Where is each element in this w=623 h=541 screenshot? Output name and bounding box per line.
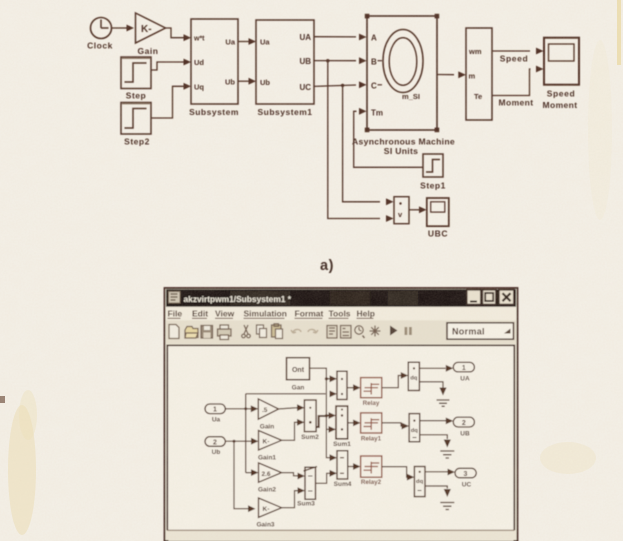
vertical tap from wire1 up to carrier row and down to Gain2 bbox=[246, 394, 259, 476]
step source Step bbox=[121, 57, 151, 101]
toolbar icon redo faded bbox=[308, 329, 318, 333]
toolbar icon paste bbox=[272, 324, 283, 339]
wire Step to Subsystem Ud bbox=[151, 59, 191, 70]
wire UB tap down to mux input 2 bbox=[328, 61, 394, 222]
wire inport1 to Gain with tap bbox=[225, 405, 258, 412]
wire Relay2 to dq block C bbox=[382, 467, 415, 481]
wire dq B to outport 2 bbox=[420, 418, 454, 425]
wire UB to machine B with tap bbox=[314, 57, 367, 64]
wire Gain to Subsystem w*t bbox=[166, 28, 192, 41]
outport 3 UC bbox=[455, 468, 476, 488]
wire tap1 to top sum input 2 bbox=[246, 391, 337, 398]
wire Subsystem Ua to Subsystem1 Ua bbox=[238, 38, 256, 45]
wire dq B to ground 2 bbox=[420, 435, 451, 448]
toolbar bbox=[166, 320, 516, 343]
vertical tap from wire2 down to Gain3 bbox=[234, 441, 256, 512]
toolbar icon library bbox=[327, 326, 337, 339]
wire Relay1 to dq block B bbox=[382, 423, 409, 430]
wire Step1 to machine Tm bbox=[354, 108, 423, 167]
wire Subsystem Ub to Subsystem1 Ub bbox=[238, 78, 256, 85]
wire UC to machine C with tap bbox=[314, 81, 367, 88]
gain triangle Gain2 bbox=[258, 463, 282, 494]
dq block A bbox=[408, 362, 419, 390]
ground symbol 1 bbox=[437, 400, 450, 406]
canvas area bbox=[167, 345, 514, 530]
clock block Clock bbox=[87, 18, 113, 51]
sum block top bbox=[337, 371, 347, 399]
toolbar icon play bbox=[390, 326, 398, 336]
relay block Relay bbox=[361, 378, 382, 407]
toolbar icon asterisk bbox=[370, 326, 381, 337]
scan stain right bbox=[540, 442, 596, 474]
asynchronous machine block bbox=[352, 14, 455, 156]
gain triangle Gain3 bbox=[256, 498, 281, 529]
toolbar icon open bbox=[185, 327, 198, 339]
title bar bbox=[166, 289, 516, 307]
wire Clock to Gain bbox=[112, 25, 134, 32]
wire Gain to Sum2 input 1 bbox=[279, 404, 305, 411]
maximize button bbox=[482, 290, 496, 305]
relay block Relay2 bbox=[361, 456, 382, 486]
measurement demux block bbox=[466, 28, 492, 120]
sum block Sum3 bbox=[297, 467, 317, 508]
toolbar icon copy bbox=[257, 325, 267, 338]
scope Speed Moment bbox=[543, 38, 579, 110]
dq block B bbox=[409, 414, 420, 442]
toolbar icon cut bbox=[242, 325, 251, 338]
relay block Relay1 bbox=[361, 413, 382, 443]
gain K- Gain bbox=[136, 13, 166, 56]
toolbar icon print bbox=[218, 325, 232, 340]
scope UBC bbox=[427, 198, 449, 239]
inport 2 Ub bbox=[205, 437, 225, 456]
wire dq A to outport 1 bbox=[419, 365, 453, 372]
edge tick left bbox=[0, 396, 5, 403]
toolbar icon clock small bbox=[355, 326, 365, 338]
window frame bbox=[165, 288, 518, 541]
wire dq A to ground 1 bbox=[419, 382, 446, 396]
wire top sum to Relay bbox=[347, 384, 361, 391]
branch to top sum input 1 bbox=[326, 375, 337, 382]
sum block Sum4 bbox=[334, 451, 352, 488]
toolbar icon undo faded bbox=[291, 329, 301, 333]
wire mux to scope UBC bbox=[409, 206, 427, 213]
step source Step1 bbox=[420, 154, 446, 191]
simulation mode combo Normal bbox=[447, 323, 514, 339]
gain triangle Gain bbox=[258, 399, 278, 431]
scan stain left bbox=[8, 405, 36, 535]
toolbar icon new bbox=[169, 325, 179, 339]
wire Gain1 up to Sum2 input 2 bbox=[282, 419, 305, 440]
dq block C bbox=[414, 467, 425, 497]
wire Step2 to Subsystem Uq bbox=[151, 83, 191, 118]
minimize button bbox=[467, 290, 481, 305]
subsystem block Subsystem bbox=[189, 19, 239, 117]
ground symbol 3 bbox=[440, 503, 454, 510]
wire dq C to ground 3 bbox=[425, 486, 451, 497]
wire Sum2 output to Sum1 input 1 bbox=[316, 412, 336, 427]
outport 2 UB bbox=[453, 417, 474, 437]
menu bar bbox=[166, 307, 516, 321]
toolbar icon pause faded bbox=[405, 327, 412, 335]
branch to Sum1 input 2 bbox=[326, 426, 336, 433]
toolbar icon save bbox=[201, 326, 213, 339]
wire wm to scope labelled Speed bbox=[492, 48, 544, 64]
wire Sum3 output to Sum4 input 2 bbox=[316, 470, 338, 483]
wire machine output m to demux bbox=[437, 71, 466, 78]
wire Relay to dq block A bbox=[382, 372, 409, 388]
mux block for UBC bbox=[394, 197, 409, 224]
constant block Ont bbox=[287, 358, 310, 392]
wire Sum4 to Relay2 bbox=[348, 463, 361, 470]
wire dq C to outport 3 bbox=[425, 469, 455, 476]
wire Gain3 up to Sum3 input 2 bbox=[282, 487, 305, 508]
wire Gain2 to Sum3 input 1 bbox=[282, 473, 305, 480]
toolbar icon model browser bbox=[341, 326, 352, 339]
sum block Sum1 bbox=[333, 406, 351, 448]
wire inport2 to Gain1 with tap bbox=[225, 438, 258, 445]
wire constant down distribution bus bbox=[310, 368, 338, 461]
ground symbol 2 bbox=[440, 451, 454, 458]
sum block Sum2 bbox=[301, 400, 319, 441]
title bar icon bbox=[169, 292, 181, 304]
wire Te to scope labelled Moment bbox=[492, 66, 544, 108]
wire UA to machine A bbox=[314, 34, 367, 41]
wire Sum1 to Relay1 bbox=[348, 420, 361, 427]
step source Step2 bbox=[121, 103, 151, 147]
inport 1 Ua bbox=[205, 404, 225, 424]
subsystem block Subsystem1 bbox=[256, 20, 314, 117]
outport 1 UA bbox=[453, 362, 474, 382]
close button bbox=[499, 290, 514, 305]
wire UC tap down to mux input 1 bbox=[343, 85, 394, 205]
gain triangle Gain1 bbox=[258, 431, 282, 462]
